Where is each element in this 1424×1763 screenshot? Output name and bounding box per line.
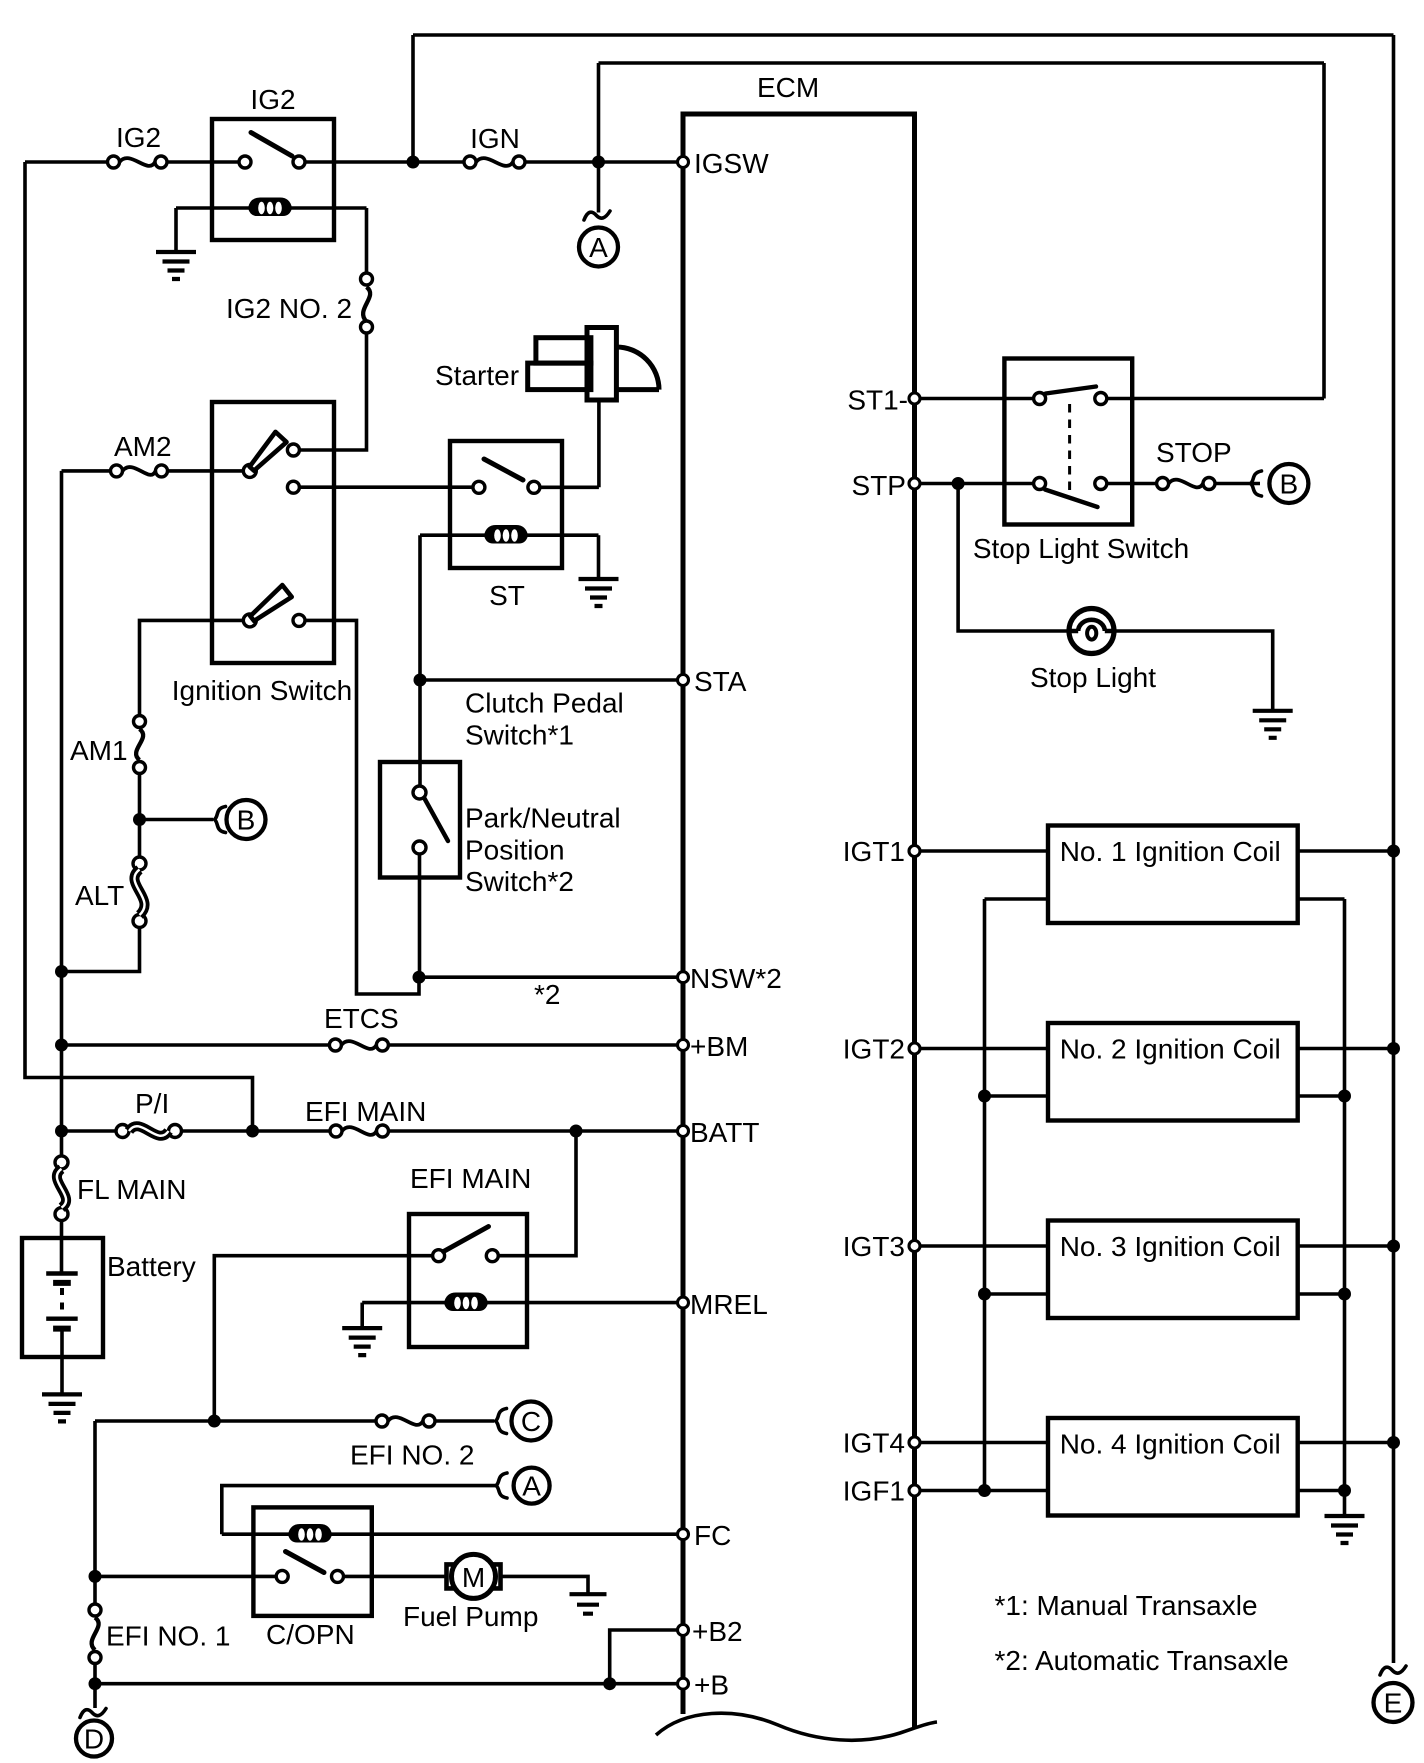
IG2 relay switch blade [251, 133, 292, 157]
park/neutral position switch (box) [380, 762, 621, 897]
wire: IG2 fuse to IG2 relay contact [167, 160, 239, 164]
ground (battery) [42, 1394, 82, 1421]
svg-text:IGT3: IGT3 [843, 1231, 905, 1262]
node: no.3 ground junction [1338, 1288, 1351, 1301]
svg-text:ALT: ALT [75, 880, 124, 911]
battery plates [46, 1274, 77, 1329]
break symbol above connector E [1380, 1666, 1406, 1675]
svg-text:IGT1: IGT1 [843, 836, 905, 867]
connector E (to page E) [1374, 1683, 1413, 1722]
connector A (to page A) [579, 228, 618, 267]
terminal IGT4 [843, 1428, 920, 1459]
svg-text:FC: FC [694, 1520, 731, 1551]
wire: fuel pump motor to ground [502, 1576, 588, 1594]
wire: EFI NO.2 feed line [95, 1419, 376, 1423]
connector B (from page B) [227, 800, 266, 839]
svg-text:Ignition Switch: Ignition Switch [172, 675, 353, 706]
wire: ignition switch ST contact to ST relay contact [299, 485, 473, 489]
stop light switch mechanical link (dashed) [1068, 404, 1071, 498]
connector A (from page A) [514, 1468, 550, 1504]
wire: EFI NO.2 fuse to connector C [435, 1419, 494, 1423]
fuse AM1 [70, 716, 146, 774]
svg-text:C/OPN: C/OPN [266, 1619, 355, 1650]
wire: connector A feed to C/OPN relay coil [222, 1486, 496, 1535]
connector C (to page C) [512, 1402, 551, 1441]
stop light switch lower contacts [1034, 478, 1046, 490]
svg-text:*1: Manual Transaxle: *1: Manual Transaxle [995, 1590, 1258, 1621]
wire: FL MAIN link down into battery [60, 1221, 64, 1274]
wire: AM2 fuse to ignition switch AM2 pivot [168, 469, 244, 473]
wire: P/I link to EFI MAIN fuse [182, 1129, 331, 1133]
svg-text:B: B [1280, 469, 1299, 500]
node: no.4 coil supply junction [1387, 1436, 1400, 1449]
connector D (to page D) [76, 1721, 112, 1757]
ignition switch upper pivot contact [243, 464, 256, 477]
ignition switch IG2 contact [287, 444, 299, 456]
wire: ALT link down and left to left rail [62, 928, 140, 972]
wire: ST1- terminal to stop light switch [920, 397, 1034, 401]
svg-text:Switch*2: Switch*2 [465, 866, 574, 897]
wire: no.2 coil ground pin to ground rail [1298, 1094, 1345, 1098]
svg-text:+B2: +B2 [692, 1616, 743, 1647]
svg-text:+BM: +BM [690, 1031, 748, 1062]
node: no.3 IGF junction [978, 1288, 991, 1301]
svg-text:D: D [84, 1724, 104, 1755]
svg-text:P/I: P/I [135, 1088, 169, 1119]
wire: no.3 coil IGF pin to IGF rail [985, 1292, 1049, 1296]
wire: park/neutral switch lower contact down to NSW node [418, 854, 422, 977]
svg-text:IGSW: IGSW [694, 148, 769, 179]
terminal BATT [678, 1117, 760, 1148]
break hook before connector B (stop) [1251, 471, 1262, 496]
terminal +B2 [678, 1616, 743, 1647]
wire: ST relay coil left down to STA node [418, 535, 422, 786]
svg-text:AM2: AM2 [114, 431, 172, 462]
park/neutral switch contacts [413, 786, 426, 799]
terminal STA [678, 666, 747, 697]
wire: +B2 branch [610, 1630, 678, 1684]
ignition switch lower right contact [293, 614, 305, 626]
wire: EFI MAIN fuse to ECM BATT terminal [389, 1129, 678, 1133]
svg-text:*2: *2 [534, 979, 560, 1010]
ground (ST relay coil) [579, 579, 619, 606]
wire: EFI NO.1 fuse to +B line and connector D [93, 1664, 97, 1709]
wire: ST relay coil right to ground [597, 535, 601, 579]
wire: C/OPN contact to fuel pump motor [344, 1575, 447, 1579]
coil of ST relay [484, 525, 528, 544]
wire: IGF1 terminal to no.4 coil [920, 1489, 1048, 1493]
terminal NSW*2 [678, 963, 782, 994]
wire: ETCS fuse to ECM +BM terminal [388, 1043, 677, 1047]
node: +B2 branch junction [603, 1677, 616, 1690]
wire: no.3 coil ground pin to ground rail [1298, 1292, 1345, 1296]
wire: STP node down to stop light bulb [958, 484, 1069, 632]
svg-text:FL MAIN: FL MAIN [77, 1174, 186, 1205]
break symbol above connector A [584, 211, 610, 220]
wire: NSW node to ECM NSW*2 terminal [419, 975, 678, 979]
fuse IGN [464, 123, 525, 168]
wire: left rail from AM2 wire down to battery [60, 471, 64, 1157]
ignition switch lower key lever [250, 585, 291, 621]
svg-text:ST1-: ST1- [847, 385, 908, 416]
wire: top supply line from IG2 relay output to ignition coil supply rail [413, 33, 1394, 37]
node: no.4 ground junction [1338, 1484, 1351, 1497]
svg-text:IG2 NO. 2: IG2 NO. 2 [226, 293, 352, 324]
wire: left rail down from EFI NO.2 line to fuel pump line [93, 1421, 97, 1604]
wire: IGT2 terminal to no.2 coil [920, 1047, 1048, 1051]
wire: no.1 coil IGF pin to IGF rail [985, 897, 1049, 901]
terminal STP [852, 470, 920, 501]
wire: IG2 relay coil to ground [174, 208, 178, 252]
ignition switch (box) [172, 402, 353, 706]
wire: IGT3 terminal to no.3 coil [920, 1244, 1048, 1248]
fuel pump motor M [403, 1554, 538, 1632]
svg-text:IGT2: IGT2 [843, 1034, 905, 1065]
terminal +B [678, 1670, 730, 1701]
fuse ETCS [324, 1003, 399, 1051]
node: ALT return junction on left rail [55, 965, 68, 978]
node: STA junction [414, 674, 427, 687]
node: fuel pump branch junction [89, 1570, 102, 1583]
wire: BATT feed from left rail [62, 1129, 117, 1133]
wire: tap to connector B [140, 818, 214, 822]
svg-text:M: M [462, 1562, 485, 1593]
svg-text:E: E [1384, 1688, 1403, 1719]
svg-text:+B: +B [694, 1670, 729, 1701]
wire: ignition coil supply rail (right side) [1392, 35, 1396, 1663]
wire: IG2 relay output contact to IGSW terminal of ECM [305, 160, 464, 164]
ST relay switch contacts [473, 481, 485, 493]
terminal IGT2 [843, 1034, 920, 1065]
wire: EFI MAIN relay coil line to ECM MREL terminal [362, 1301, 677, 1305]
svg-text:STP: STP [852, 470, 906, 501]
wire: stop light switch to top feed line [1107, 397, 1324, 401]
ground (ignition coils) [1325, 1516, 1365, 1543]
fuse EFI MAIN [305, 1096, 426, 1137]
fusible link P/I [116, 1088, 182, 1138]
relay IG2 (box) [212, 84, 334, 240]
wire: IGN fuse to ECM IGSW terminal [525, 160, 678, 164]
wire: main ignition feed at y=162 from left rail to IG2 fuse [25, 160, 108, 164]
wire: no.4 coil to supply rail [1298, 1441, 1394, 1445]
node: +B junction [89, 1677, 102, 1690]
svg-text:STOP: STOP [1156, 437, 1232, 468]
node: tap to connector B [133, 813, 146, 826]
svg-text:Position: Position [465, 835, 565, 866]
wire: starter solenoid down to ST relay contact wire [597, 400, 601, 487]
svg-text:STA: STA [694, 666, 747, 697]
wire: +B line to ECM +B terminal [95, 1682, 678, 1686]
svg-text:Stop Light: Stop Light [1030, 662, 1156, 693]
terminal ST1- [847, 385, 920, 416]
node: stop light branch junction [952, 477, 965, 490]
break hook before connector A (C/OPN) [496, 1473, 507, 1498]
svg-text:EFI MAIN: EFI MAIN [410, 1163, 531, 1194]
fuse AM2 [111, 431, 172, 477]
svg-text:ST: ST [489, 580, 525, 611]
wire: IGT4 terminal to no.4 coil [920, 1441, 1048, 1445]
wire: vertical from second top line down to ST1- wire [1322, 63, 1326, 399]
relay EFI MAIN (box) [409, 1163, 531, 1347]
no. 2 ignition coil (box) [1048, 1023, 1298, 1121]
node: junction of top supply tap on main feed [407, 156, 420, 169]
connector B (to page B) [1269, 464, 1308, 503]
fuse EFI NO. 1 [89, 1604, 230, 1664]
svg-text:Park/Neutral: Park/Neutral [465, 803, 621, 834]
wire: vertical tap from IGSW node up to second top line [597, 63, 601, 162]
break symbol above connector D [80, 1709, 106, 1718]
ground (EFI MAIN relay coil) [342, 1328, 382, 1355]
fusible link ALT [75, 857, 146, 928]
wire: ST relay contact to starter [540, 485, 599, 489]
svg-text:MREL: MREL [690, 1289, 768, 1320]
wire: stub from IGSW node down to connector A [597, 162, 601, 213]
svg-text:No. 3 Ignition Coil: No. 3 Ignition Coil [1060, 1231, 1281, 1262]
ignition switch upper key lever [250, 432, 287, 471]
terminal IGSW [678, 148, 770, 179]
svg-text:B: B [237, 805, 256, 836]
ground (IG2 relay coil) [156, 252, 196, 279]
svg-text:No. 4 Ignition Coil: No. 4 Ignition Coil [1060, 1429, 1281, 1460]
terminal +BM [678, 1031, 749, 1062]
coil of EFI MAIN relay [444, 1293, 488, 1312]
wire: C/OPN coil line to ECM FC terminal [222, 1532, 678, 1536]
svg-text:Stop Light Switch: Stop Light Switch [973, 533, 1189, 564]
svg-text:No. 2 Ignition Coil: No. 2 Ignition Coil [1060, 1034, 1281, 1065]
wire: BATT node down to EFI MAIN relay contact [498, 1131, 576, 1256]
node: EFI MAIN relay feed junction [570, 1125, 583, 1138]
wire: stop light bulb to ground [1114, 631, 1273, 711]
node: NSW*2 junction [413, 971, 426, 984]
starter (motor symbol) [435, 328, 659, 401]
svg-text:IG2: IG2 [116, 122, 161, 153]
C/OPN relay switch contacts [276, 1570, 288, 1582]
node: IGSW junction on main feed [592, 156, 605, 169]
fuse IG2 [108, 122, 168, 168]
relay ST (box) [450, 441, 562, 611]
terminal FC [678, 1520, 732, 1551]
wire: left rail to AM2 fuse [62, 469, 111, 473]
svg-text:A: A [589, 232, 608, 263]
no. 3 ignition coil (box) [1048, 1221, 1298, 1319]
wire: ST relay coil line [420, 533, 599, 537]
note: transaxle footnotes [995, 1590, 1289, 1676]
ground (stop light) [1253, 711, 1293, 738]
wire: ignition switch AM1 pivot to AM1 fuse rail [140, 620, 244, 715]
svg-text:Battery: Battery [107, 1251, 196, 1282]
relay C/OPN (box) [253, 1507, 371, 1650]
svg-text:No. 1 Ignition Coil: No. 1 Ignition Coil [1060, 836, 1281, 867]
terminal MREL [678, 1289, 768, 1320]
stop light switch upper blade [1046, 387, 1096, 394]
no. 4 ignition coil (box) [1048, 1418, 1298, 1516]
fuse EFI NO. 2 [350, 1415, 474, 1471]
wire: vertical tap from node at (413,162) up to top supply line [411, 35, 415, 162]
terminal IGF1 [843, 1476, 920, 1507]
svg-text:AM1: AM1 [70, 735, 128, 766]
svg-text:ECM: ECM [757, 72, 819, 103]
wire: IG2 relay coil line [176, 206, 367, 210]
fusible link FL MAIN [55, 1156, 186, 1221]
coil of C/OPN relay [288, 1524, 332, 1543]
wire: junction to C/OPN switch contact [95, 1575, 276, 1579]
stop light bulb [1030, 609, 1156, 694]
svg-text:Switch*1: Switch*1 [465, 720, 574, 751]
stop light switch (box) [973, 359, 1189, 565]
node: no.2 coil supply junction [1387, 1042, 1400, 1055]
svg-text:Fuel Pump: Fuel Pump [403, 1601, 538, 1632]
wire: EFI MAIN relay coil to ground [360, 1303, 364, 1329]
svg-text:NSW*2: NSW*2 [690, 963, 782, 994]
wire: second top line from IGSW node to stop light switch ST1- line [599, 61, 1325, 65]
no. 1 ignition coil (box) [1048, 826, 1298, 924]
wire: no.2 coil to supply rail [1298, 1047, 1394, 1051]
node: junction of far-left rail branch [246, 1125, 259, 1138]
ST relay switch blade [484, 459, 523, 480]
battery (box) [22, 1238, 196, 1357]
terminal IGT1 [843, 836, 920, 867]
park/neutral switch blade [425, 799, 449, 842]
wire: STP terminal to stop light switch [920, 482, 1034, 486]
node: no.2 IGF junction [978, 1090, 991, 1103]
wire: IG2 NO.2 fuse down to ignition switch IG2 contact [299, 333, 366, 450]
node: no.1 coil supply junction [1387, 845, 1400, 858]
wire: no.2 coil IGF pin to IGF rail [985, 1094, 1049, 1098]
fuse IG2 NO. 2 [226, 273, 373, 333]
svg-text:EFI NO. 1: EFI NO. 1 [106, 1621, 230, 1652]
svg-text:*2: Automatic Transaxle: *2: Automatic Transaxle [995, 1645, 1289, 1676]
wire: STA node to ECM STA terminal [420, 678, 678, 682]
wire: left rail to ETCS fuse [62, 1043, 330, 1047]
svg-text:EFI NO. 2: EFI NO. 2 [350, 1440, 474, 1471]
node: EFI MAIN relay branch on EFI NO.2 line [208, 1415, 221, 1428]
fuse STOP [1156, 437, 1232, 490]
svg-text:ETCS: ETCS [324, 1003, 399, 1034]
wire: far left rail from main feed down to EFI MAIN fuse branch [25, 162, 253, 1131]
EFI MAIN relay switch contacts [433, 1250, 445, 1262]
svg-text:IGN: IGN [470, 123, 520, 154]
ECM (box, torn at bottom) [656, 72, 937, 1740]
wire: no.1 coil ground pin to ground rail [1298, 897, 1345, 901]
stop light switch upper contacts [1034, 393, 1046, 405]
svg-text:A: A [522, 1471, 541, 1502]
ground (fuel pump) [570, 1594, 607, 1614]
svg-text:IGT4: IGT4 [843, 1428, 905, 1459]
svg-text:EFI MAIN: EFI MAIN [305, 1096, 426, 1127]
svg-text:Starter: Starter [435, 360, 519, 391]
wire: IGF1 common rail [983, 899, 987, 1491]
node: no.2 ground junction [1338, 1090, 1351, 1103]
wire: no.1 coil to supply rail [1298, 849, 1394, 853]
ignition switch lower pivot contact (AM1) [243, 614, 256, 627]
break hook before connector C [496, 1409, 507, 1434]
svg-text:C: C [521, 1406, 541, 1437]
EFI MAIN relay switch blade [444, 1227, 489, 1252]
svg-text:IGF1: IGF1 [843, 1476, 905, 1507]
svg-text:IG2: IG2 [250, 84, 295, 115]
svg-text:Clutch Pedal: Clutch Pedal [465, 688, 624, 719]
coil of IG2 relay [248, 198, 292, 217]
wire: no.4 coil ground pin to ground rail [1298, 1489, 1345, 1493]
wire: AM1 fuse down through node B to ALT fusible link [138, 774, 142, 858]
node: BATT junction on left rail [55, 1125, 68, 1138]
node: no.3 coil supply junction [1387, 1240, 1400, 1253]
wire: EFI MAIN relay contact left to EFI NO.2 branch [214, 1256, 432, 1421]
stop light switch lower blade [1045, 490, 1098, 508]
node: IGF1 rail junction [978, 1484, 991, 1497]
wire: STOP fuse to connector B [1215, 482, 1260, 486]
wire: ignition coil ground rail [1343, 899, 1347, 1516]
svg-text:BATT: BATT [690, 1117, 759, 1148]
terminal IGT3 [843, 1231, 920, 1262]
wire: IGT1 terminal to no.1 coil [920, 849, 1048, 853]
wire: stop light switch to STOP fuse [1107, 482, 1157, 486]
wire: IG2 relay coil supply down to IG2 NO.2 fuse [365, 208, 369, 273]
wire: no.3 coil to supply rail [1298, 1244, 1394, 1248]
wire: ignition switch lower contact loop to NSW node [305, 620, 419, 994]
wire: battery negative to ground [60, 1329, 64, 1395]
node: ETCS junction on left rail [55, 1039, 68, 1052]
C/OPN relay switch blade [286, 1552, 325, 1573]
IG2 relay switch contacts [239, 156, 251, 168]
break hook before connector B [215, 807, 226, 833]
ignition switch ST contact [287, 481, 299, 493]
